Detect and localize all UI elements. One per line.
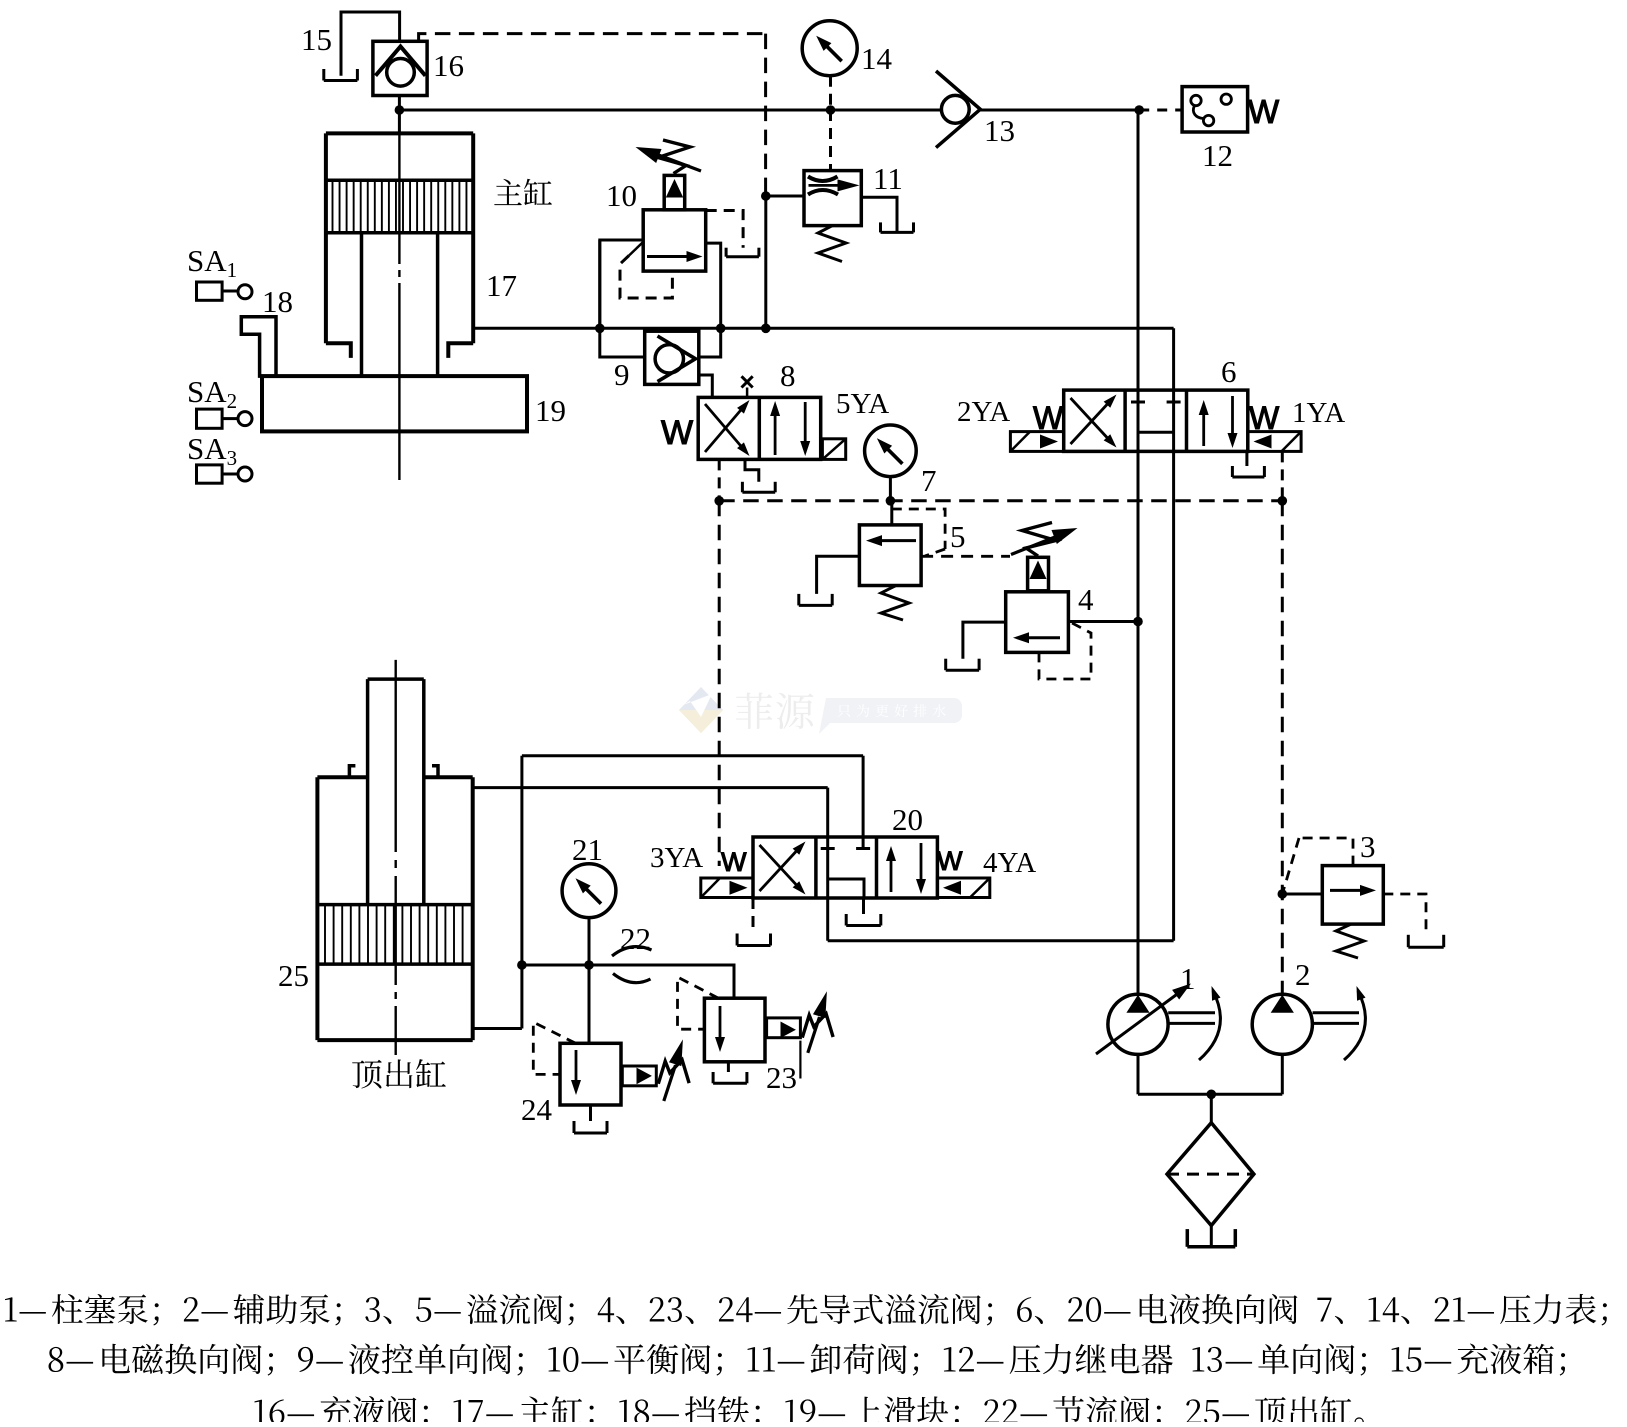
relief valve 3 [1322,866,1383,925]
svg-text:11: 11 [873,161,903,196]
svg-text:9: 9 [614,357,630,392]
wire junction to valve 11 [766,195,804,198]
pressure gauge 14 [802,21,857,76]
svg-text:3YA: 3YA [650,842,703,874]
slider block 19 [262,376,527,431]
svg-text:19: 19 [535,393,566,428]
svg-text:12: 12 [1202,138,1233,173]
svg-text:14: 14 [861,41,893,76]
valve 8 crossed arrows [705,400,750,456]
wire valve16 down [398,96,401,134]
pilot line dashed from valve 16 top [419,34,766,42]
relief valve 5 [859,525,921,586]
valve 20 solenoid drain dashed tank [752,898,755,934]
pilot rail dashed [719,499,1282,502]
electro-hydraulic valve 6 body [1064,390,1248,451]
charge tank 15 [324,12,400,81]
filter [1167,1123,1254,1226]
travel switch SA3 [187,431,252,483]
wire valve 3 inlet [1282,893,1322,896]
caption line 1 [5,1294,1607,1326]
valve 3 drain dashed to tank [1383,894,1426,935]
svg-text:22: 22 [620,921,651,956]
electro-hydraulic valve 20 body [753,837,937,898]
pilot relief valve 23 [704,998,765,1062]
valve 24 pilot dashed loop [533,1022,575,1074]
pump 2 auxiliary [1252,986,1365,1060]
valve 5 drain to tank [817,556,860,594]
svg-text:4: 4 [1078,582,1094,617]
svg-text:W: W [661,414,693,452]
solenoid directional valve 8 body [698,397,821,459]
valve10 drain dashed to tank [706,211,743,248]
valve 20 parallel arrows [886,843,926,894]
svg-text:17: 17 [486,268,517,303]
wire valve10 right port [699,243,721,357]
label 顶出缸 [352,1059,446,1088]
stop bracket 18 [241,317,276,376]
ejector rod [368,679,424,905]
pilot operated check valve 9 [645,331,699,384]
caption line 3 [254,1396,1363,1427]
svg-text:20: 20 [892,802,923,837]
main cylinder centerline [398,133,400,264]
wire valve 4 to pump line [1068,620,1138,623]
node main rail / pump line [1134,105,1144,115]
valve 20 drain tank [862,898,865,914]
svg-text:16: 16 [433,48,464,83]
wire ejector head-end line [473,786,828,789]
valve 3 pilot dashed [1299,838,1353,866]
watermark logo [679,687,962,734]
wire main cylinder port line [473,327,1173,330]
main cylinder gland hatch band [326,180,473,233]
wire valve10 left port [600,240,643,328]
svg-text:18: 18 [262,284,293,319]
wire to valve 23 [522,965,734,998]
valve 4 pilot cap [1028,557,1049,591]
pilot dashed line to pump 2 [1281,501,1284,994]
svg-text:8: 8 [780,358,796,393]
throttle valve 22 [612,947,652,983]
valve 8 blocked port x [742,376,753,397]
valve 23 pilot dashed loop [678,977,719,1029]
valve 6 drain tank [1245,451,1248,466]
wire gauge 21 down to valve 24 [588,918,591,1044]
pressure relay 12 [1182,87,1248,132]
node below valve 16 [395,105,405,115]
svg-text:23: 23 [766,1060,797,1095]
valve 23 pilot box [767,1018,801,1038]
drain of valve 11 to tank [861,197,897,231]
svg-text:W: W [937,846,963,876]
node valve9 branch [716,324,726,334]
pressure gauge 21 [562,864,616,918]
wire valve9 to valve8 [699,375,713,397]
valve 6 solenoid 1YA [1248,432,1301,452]
valve10 pilot dashed loop [620,256,672,299]
svg-text:10: 10 [606,178,637,213]
check valve 13 [936,71,980,148]
valve 6 crossed arrows [1071,395,1117,448]
node drain branch [761,324,771,334]
svg-text:W: W [721,847,747,877]
valve 6 pilot dashed down [1281,451,1284,500]
valve 5 spring [881,586,909,621]
main cylinder plunger [360,233,364,376]
balance valve 10 adjustable spring [636,140,702,174]
node pilot/drain junction [761,191,771,201]
valve 3 spring [1336,924,1364,958]
wire dashed to pressure relay 12 [1139,109,1182,112]
valve 4 pilot dashed loop [1039,623,1091,679]
svg-text:4YA: 4YA [983,847,1036,879]
pump suction lines [1137,1054,1140,1094]
svg-text:6: 6 [1221,354,1237,389]
valve 6 solenoid 2YA [1010,432,1063,452]
pilot relief valve 24 [560,1043,621,1105]
valve 23 adjustable spring [800,991,833,1078]
valve 8 parallel arrows [770,401,810,456]
wire ejector lower port [520,756,523,1029]
wire ejector rod-end line [522,754,863,757]
valve 24 drain tank [589,1105,592,1121]
svg-text:5: 5 [950,519,966,554]
valve 8 solenoid 5YA [822,439,845,460]
node valve10 branch [595,324,605,334]
svg-text:13: 13 [984,113,1015,148]
charge valve 16 [373,41,427,95]
caption line 2 [49,1343,1566,1375]
pressure gauge 7 [865,425,917,477]
svg-text:3: 3 [1360,829,1376,864]
wire pump1 pressure line [1137,110,1140,994]
balance valve 10 pilot cap [664,175,685,209]
wire valve6 B line [1172,328,1175,941]
valve 6 parallel arrows [1199,396,1238,448]
valve 20 center blocked ports [821,849,870,899]
svg-text:21: 21 [572,832,603,867]
valve 4 body [1006,592,1069,653]
ejector cylinder 25 body [317,766,472,1040]
valve 8 pilot dashed down [718,459,721,500]
valve 20 solenoid 4YA [937,878,989,898]
unloading valve 11 [804,171,861,226]
valve 23 drain tank [727,1062,730,1072]
pump 1 variable displacement [1096,984,1221,1061]
remote pilot dashed valve5 to valve4 [921,555,1010,558]
spring of valve 11 [818,226,846,262]
wire valve20 through line [826,788,829,941]
svg-text:2YA: 2YA [957,396,1010,428]
main cylinder 17 body [326,133,473,358]
wire junction down to main line [764,196,767,328]
valve 4 drain to tank [963,622,1006,659]
svg-text:24: 24 [521,1092,553,1127]
valve 24 adjustable spring [658,1039,689,1101]
valve 20 solenoid 3YA [701,878,753,898]
valve 5 pilot dashed [892,509,945,549]
ejector centerline [395,660,397,852]
wire main rail y110 [399,109,941,112]
travel switch SA2 [187,374,252,428]
travel switch SA1 [187,243,252,300]
svg-text:2: 2 [1295,957,1311,992]
svg-text:W: W [1248,93,1280,130]
wire valve20 A to valve6 [828,939,1174,942]
svg-text:1YA: 1YA [1292,397,1345,429]
wire valve9 left port [600,240,645,357]
svg-text:1: 1 [1180,961,1196,996]
valve 6 center blocked ports [1131,402,1181,432]
pilot relief valve 4 adjustable spring [1011,523,1078,557]
svg-text:7: 7 [921,463,937,498]
svg-text:5YA: 5YA [836,388,889,420]
svg-text:25: 25 [278,958,309,993]
node gauge14 tap [826,105,836,115]
balance valve 10 body [629,210,706,271]
ejector piston hatch band [317,905,472,965]
pilot dashed down to valve 20 [718,501,721,866]
filter suction from tank [1210,1226,1213,1247]
valve 24 pilot box [622,1066,656,1086]
label 主缸 [494,179,552,205]
wire dashed gauge14 to rail and valve 11 [829,76,832,110]
svg-text:15: 15 [301,22,332,57]
valve 8 drain to tank [745,459,759,481]
valve 20 crossed arrows [760,842,806,895]
